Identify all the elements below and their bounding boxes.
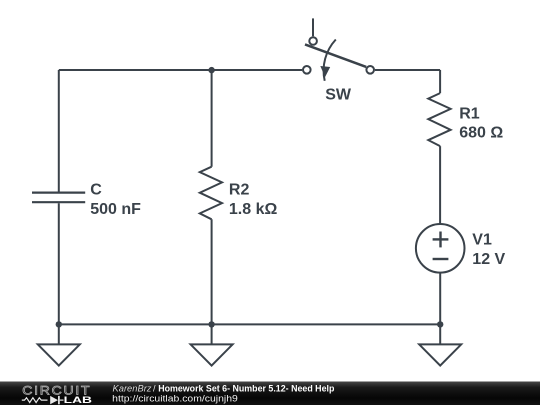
svg-text:SW: SW — [325, 87, 352, 104]
svg-text:1.8 kΩ: 1.8 kΩ — [229, 201, 278, 218]
svg-text:R1: R1 — [459, 105, 480, 122]
svg-text:Homework Set 6- Number 5.12- N: Homework Set 6- Number 5.12- Need Help — [158, 383, 335, 393]
svg-text:KarenBrz: KarenBrz — [113, 383, 153, 393]
svg-text:http://circuitlab.com/cujnjh9: http://circuitlab.com/cujnjh9 — [112, 394, 238, 404]
svg-text:500 nF: 500 nF — [90, 201, 141, 218]
svg-text:12 V: 12 V — [472, 251, 505, 268]
svg-text:680 Ω: 680 Ω — [459, 125, 503, 142]
svg-text:V1: V1 — [472, 232, 492, 249]
svg-text:C: C — [90, 182, 102, 199]
svg-text:R2: R2 — [229, 181, 250, 198]
svg-text:LAB: LAB — [64, 395, 92, 405]
